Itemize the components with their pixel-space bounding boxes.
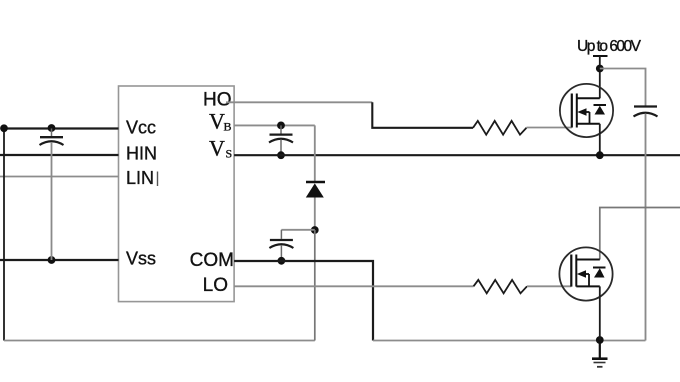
svg-text:HIN: HIN — [126, 144, 157, 164]
transistor Q2 (low-side MOSFET) — [559, 247, 612, 300]
junction dot diode anode node — [311, 226, 319, 234]
junction dot C3 bottom on COM — [278, 257, 286, 265]
capacitor C2 (bootstrap) — [269, 125, 293, 155]
wire supply node to C4 — [600, 69, 646, 106]
wire supply to Q1 drain — [599, 56, 601, 98]
svg-text:LIN: LIN — [126, 168, 154, 188]
wire COM pin — [234, 261, 373, 341]
wire HO pin — [226, 101, 372, 103]
wire Q2 source to ground node — [599, 286, 601, 340]
supply terminal bar — [593, 55, 608, 57]
junction dot C2 bottom on VS — [277, 151, 285, 159]
diode D1 bootstrap: VB lead — [314, 125, 316, 181]
wire Vcc vertical to bottom rail — [3, 129, 5, 341]
wire anode node to C3 — [281, 229, 314, 231]
junction dot supply node — [596, 65, 604, 73]
wire bottom-right rail (COM/ground) — [373, 340, 646, 342]
svg-text:Up to 600V: Up to 600V — [577, 38, 642, 55]
transistor Q1 (high-side MOSFET) — [560, 84, 613, 137]
resistor R1 (high-side gate) — [473, 121, 527, 135]
wire HIN pin — [0, 154, 119, 156]
wire VB pin — [234, 124, 315, 126]
wire Vss pin — [0, 259, 119, 261]
wire LIN pin — [0, 176, 119, 178]
junction dot Vcc left — [0, 124, 8, 132]
wire anode node down to bottom rail — [314, 230, 316, 341]
wire VS pin to phase node — [234, 154, 680, 156]
svg-text:Vss: Vss — [126, 249, 156, 269]
resistor R2 (low-side gate) — [474, 280, 528, 293]
wire Vcc pin — [4, 127, 119, 129]
diode D1 cathode bar — [306, 181, 325, 183]
diode D1 triangle — [306, 183, 324, 197]
junction dot phase node — [596, 151, 604, 159]
capacitor C4 (bus decoupling) — [634, 107, 658, 341]
capacitor C1 (Vcc-Vss decoupling) — [40, 129, 64, 261]
svg-text:S: S — [226, 147, 233, 161]
artifact bar after LIN — [157, 172, 159, 187]
wire load return from right edge to Q2 drain — [600, 208, 680, 260]
pin label VS — [209, 136, 232, 161]
wire bottom-left rail (Vcc to diode anode) — [4, 340, 315, 342]
capacitor C3 (Vcc-COM decoupling) — [269, 230, 293, 261]
svg-text:Vcc: Vcc — [126, 118, 156, 138]
diode D1 anode lead — [314, 198, 316, 231]
junction dot C2 top — [277, 122, 285, 130]
wire R2 to Q2 gate — [527, 285, 571, 287]
junction dot C1 bottom — [48, 256, 56, 264]
junction dot C1 top — [48, 124, 56, 132]
svg-text:HO: HO — [203, 90, 232, 111]
svg-text:COM: COM — [190, 250, 234, 271]
svg-text:B: B — [224, 120, 232, 134]
junction dot ground node — [596, 336, 604, 344]
wire Q1 source to phase node — [599, 124, 601, 155]
IC U1 gate driver body — [119, 86, 235, 302]
ground symbol — [592, 341, 608, 367]
wire R1 to Q1 gate — [527, 127, 572, 129]
svg-text:LO: LO — [203, 275, 228, 296]
wire LO pin — [234, 285, 473, 287]
pin label VB — [209, 109, 232, 134]
svg-text:V: V — [209, 136, 225, 161]
